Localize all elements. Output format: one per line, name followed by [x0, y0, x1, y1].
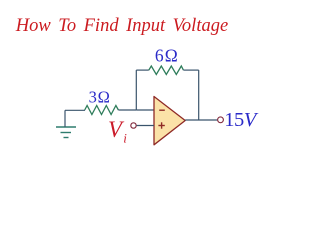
svg-text:How To Find Input Voltage: How To Find Input Voltage — [15, 16, 228, 36]
svg-text:3Ω: 3Ω — [89, 87, 111, 106]
op-amp U1 — [154, 97, 185, 145]
wire: feedback right vertical down to output — [198, 70, 200, 120]
wire: feedback left vertical — [135, 70, 137, 110]
resistor 3ohm zigzag — [85, 106, 119, 115]
wire: feedback top right horizontal — [183, 69, 198, 71]
wire: ground corner to resistor R1 — [65, 109, 85, 111]
wire: resistor to node A — [118, 109, 136, 111]
wire: op-amp output to terminal — [185, 119, 217, 121]
wire: feedback top left horizontal — [136, 69, 149, 71]
resistor 6ohm zigzag — [149, 66, 184, 75]
node A junction, wire to op-amp inverting input — [136, 109, 154, 111]
svg-text:15V: 15V — [224, 109, 259, 131]
wire: ground stem — [64, 110, 66, 127]
op-amp plus sign (non-inverting input) — [158, 125, 164, 127]
ground — [56, 127, 76, 138]
svg-text:6Ω: 6Ω — [155, 45, 179, 65]
op-amp minus sign (inverting input) — [159, 109, 165, 111]
wire: Vi node to op-amp non-inverting input — [137, 125, 154, 127]
svg-text:i: i — [123, 131, 127, 146]
node Vi terminal circle — [131, 123, 136, 128]
node output terminal circle — [218, 117, 224, 123]
